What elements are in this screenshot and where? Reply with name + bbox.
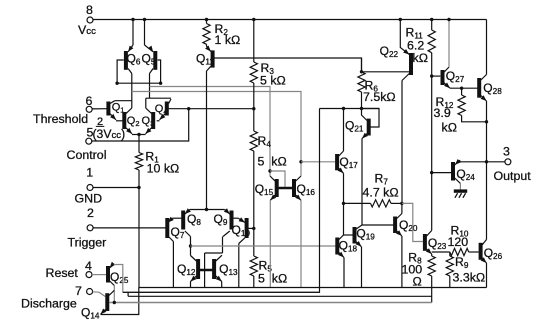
pin 7 Discharge [21, 284, 93, 311]
wire comp2 out to Q18 [191, 245, 336, 247]
svg-text:Q9: Q9 [214, 212, 228, 227]
pin 6 Threshold [33, 94, 93, 126]
wire Reset [92, 274, 106, 276]
pin 1 GND [75, 166, 103, 206]
svg-text:Q14: Q14 [81, 306, 100, 321]
svg-text:5: 5 [258, 272, 265, 286]
transistor Q11 [196, 44, 214, 71]
wire Trigger [93, 227, 165, 229]
svg-text:Q2: Q2 [127, 115, 140, 128]
transistor Q4 [155, 99, 171, 120]
svg-text:3.3kΩ: 3.3kΩ [453, 271, 486, 285]
svg-text:R9: R9 [455, 255, 469, 270]
node Vcc-R11 [430, 18, 433, 21]
svg-text:Output: Output [494, 169, 532, 183]
svg-text:R7: R7 [375, 172, 389, 187]
svg-text:Q6: Q6 [127, 52, 141, 67]
wire Q9 base [233, 218, 245, 222]
ground [454, 183, 467, 198]
svg-text:Q26: Q26 [484, 246, 503, 261]
resistor R1 [135, 135, 179, 288]
node divider 2/3Vcc [252, 107, 255, 110]
svg-text:kΩ: kΩ [272, 272, 287, 286]
wire Q28 collector Vcc [486, 20, 488, 75]
svg-text:kΩ: kΩ [271, 155, 286, 169]
wire ground rail [139, 287, 487, 289]
svg-text:8: 8 [86, 3, 93, 17]
wire R7-Q23 link [402, 203, 423, 241]
wire Q10 collector [238, 244, 240, 288]
svg-text:Q27: Q27 [446, 69, 465, 84]
node R7 tap [342, 202, 345, 205]
transistor Q6 [126, 20, 141, 74]
svg-text:Q19: Q19 [356, 227, 375, 242]
wire Q21 base loop [362, 109, 380, 128]
wire comparator out B [132, 92, 301, 177]
transistor Q20 [395, 214, 418, 237]
wire Q18 emitter [343, 258, 345, 288]
transistor Q22 [380, 20, 411, 81]
wire Q7em-Q8base [172, 217, 181, 219]
svg-text:6: 6 [86, 94, 93, 108]
node Q16 collector [299, 160, 302, 163]
wire Q3 emitter [139, 134, 146, 136]
node Q2Q3 emitters [137, 133, 140, 136]
wire Q11 collector [206, 71, 208, 210]
wire Q1em-Q2base [116, 120, 123, 122]
node Q27 collector Vcc [447, 18, 450, 21]
pin 8 Vcc [78, 3, 96, 37]
wire Q20 emitter [401, 236, 403, 288]
wire Q15 emitter [269, 200, 271, 287]
transistor Q25 [108, 262, 129, 286]
wire Q26 emitter [486, 263, 488, 288]
node output pin3 [485, 160, 488, 163]
node comparator2 out [189, 244, 192, 247]
svg-text:Q15: Q15 [255, 182, 274, 197]
svg-text:1: 1 [86, 166, 93, 180]
svg-text:Q13: Q13 [219, 262, 238, 277]
resistor R7 [344, 172, 402, 208]
svg-text:Reset: Reset [46, 266, 79, 280]
wire Q10 base [248, 227, 254, 229]
wire Q17 collector [343, 109, 345, 152]
resistor R9 [446, 252, 485, 288]
transistor Q10 [232, 217, 251, 243]
wire Q8-Q12 collectors [190, 237, 192, 256]
node Q5 base [159, 82, 162, 85]
wire Q12Q13 bases [198, 269, 214, 272]
wire Q1 collector [115, 100, 132, 102]
svg-text:Q24: Q24 [456, 167, 475, 182]
node divider 1/3Vcc [252, 227, 255, 230]
svg-text:120: 120 [448, 235, 469, 249]
node Vcc-Q22 [399, 18, 402, 21]
wire Q27em-Q28base [450, 87, 478, 89]
svg-text:Vcc: Vcc [78, 23, 96, 37]
wire Q25 emitter loop [114, 265, 123, 293]
pin 3 Output [494, 145, 532, 184]
wire discharge rail [109, 302, 432, 304]
wire output column [486, 101, 488, 240]
svg-text:Discharge: Discharge [21, 297, 77, 311]
transistor Q21 [345, 109, 369, 139]
transistor Q17 [337, 151, 358, 173]
wire Q7 collector [172, 242, 174, 288]
wire comparator out A [150, 87, 271, 177]
svg-text:Q8: Q8 [187, 212, 201, 227]
node Q4 base pin5 [187, 107, 190, 110]
svg-text:Q22: Q22 [380, 44, 399, 59]
svg-text:3: 3 [503, 145, 510, 159]
wire Q16 emitter [300, 200, 302, 287]
node Vcc-R2 [205, 18, 208, 21]
wire pin6-Q1 base [92, 108, 107, 110]
resistor R6 [358, 58, 396, 109]
node tail [205, 208, 208, 211]
node ff-Q17 [342, 107, 345, 110]
svg-text:2: 2 [87, 206, 94, 220]
transistor Q14 [81, 290, 114, 320]
transistor Q3 [142, 108, 155, 134]
svg-text:4: 4 [85, 259, 92, 273]
wire Q5-Q6 bases [117, 82, 161, 84]
wire Q11 base [215, 58, 362, 72]
node output R12 [485, 120, 488, 123]
svg-text:Q17: Q17 [339, 155, 358, 170]
wire Q4 base [169, 108, 254, 110]
wire Q19 emitter [361, 247, 363, 288]
resistor R11 [406, 20, 436, 66]
transistor Q9 [214, 208, 232, 236]
wire Q13 emitter [221, 282, 223, 288]
wire Q15 diode loop [270, 171, 285, 187]
node GND-R1 [137, 186, 140, 189]
wire pin5 [92, 109, 189, 141]
wire flipflop node [320, 108, 380, 110]
resistor R8 [402, 251, 436, 303]
transistor Q16 [294, 176, 315, 200]
pin 5 Control [67, 116, 126, 162]
svg-text:7.5kΩ: 7.5kΩ [363, 90, 396, 104]
svg-text:Q23: Q23 [428, 236, 447, 251]
node Q15 collector [268, 169, 271, 172]
node ff-R6 [360, 107, 363, 110]
svg-text:Q16: Q16 [297, 182, 316, 197]
wire Q17 emitter [343, 173, 345, 235]
wire Q8Q9 emitters [190, 209, 225, 211]
transistor Q27 [443, 67, 465, 88]
wire Q16col-Q17base [301, 161, 336, 163]
wire Q2 emitter [132, 134, 139, 136]
transistor Q23 [425, 231, 447, 255]
node discharge [113, 301, 116, 304]
transistor Q13 [214, 255, 238, 281]
resistor R10 [448, 224, 469, 256]
transistor Q8 [183, 208, 201, 236]
resistor R5 [250, 228, 287, 287]
svg-text:1 kΩ: 1 kΩ [215, 33, 241, 47]
transistor Q19 [355, 225, 376, 247]
node Vcc-Q6 [131, 18, 134, 21]
svg-text:kΩ: kΩ [413, 51, 428, 65]
transistor Q18 [337, 235, 357, 258]
wire Q3 collector [145, 98, 147, 108]
wire Q5 collector [149, 74, 151, 99]
transistor Q2 [124, 108, 139, 134]
transistor Q7 [167, 217, 185, 242]
svg-text:Q20: Q20 [399, 218, 418, 233]
wire Q22 base [362, 71, 410, 73]
node Vcc-Q5 [143, 18, 146, 21]
node Vcc-R3 [252, 18, 255, 21]
pin 4 Reset [46, 259, 93, 280]
wire Q27 collector [448, 19, 450, 67]
transistor Q12 [177, 256, 198, 282]
svg-text:kΩ: kΩ [442, 121, 457, 135]
wire R11-Q27-Q24-Q23 column [431, 53, 433, 231]
svg-text:3.9: 3.9 [434, 106, 451, 120]
svg-text:Q21: Q21 [345, 119, 364, 134]
transistor Q1 [108, 101, 124, 120]
node R12 top [460, 87, 463, 90]
pin 2 Trigger [68, 206, 107, 250]
resistor R12 [434, 88, 487, 134]
resistor R2 [203, 20, 240, 48]
wire Vcc rail [93, 19, 487, 21]
resistor R4 [250, 109, 287, 229]
svg-text:R4: R4 [258, 134, 272, 149]
svg-text:Q12: Q12 [177, 262, 196, 277]
wire Q24 base [432, 172, 451, 174]
wire Q18col-Q19base [344, 234, 353, 236]
wire R10 left [432, 251, 450, 253]
svg-text:Control: Control [67, 148, 107, 162]
wire reset line [123, 109, 320, 293]
wire Q12 emitter [190, 282, 192, 288]
node Q24 base [430, 171, 433, 174]
wire Q5 base loop [158, 60, 161, 83]
wire Q25 collector [113, 286, 115, 303]
transistor Q5 [142, 20, 156, 74]
wire Q6 base loop [117, 60, 124, 83]
svg-text:(3Vcc): (3Vcc) [93, 127, 126, 141]
node Q6 base [115, 82, 118, 85]
transistor Q26 [481, 240, 503, 264]
wire pin7-Q14 [93, 292, 106, 297]
wire GND [93, 187, 139, 189]
svg-text:5 kΩ: 5 kΩ [260, 74, 286, 88]
wire Q21 emitter [361, 139, 363, 226]
node Q22 base R6 [360, 70, 363, 73]
resistor R3 [250, 20, 286, 109]
wire Q15Q16 bases [277, 187, 294, 190]
wire rail B [128, 292, 432, 296]
wire Q24-pin3 [460, 160, 505, 162]
transistor Q28 [479, 75, 502, 102]
transistor Q24 [453, 159, 475, 183]
node Q27 base [430, 74, 433, 77]
svg-text:GND: GND [75, 192, 103, 206]
wire Q4em-Q3base [157, 120, 160, 122]
wire Q13 diode loop [205, 253, 223, 288]
wire Q19col-Q20base [362, 224, 393, 226]
wire Q27 base [432, 75, 441, 77]
wire reset rail [123, 291, 320, 293]
wire R10-Q26 base [469, 251, 479, 253]
svg-text:Q25: Q25 [110, 270, 129, 285]
svg-text:Trigger: Trigger [68, 236, 107, 250]
node Q20 collector [400, 202, 403, 205]
wire Q9-Q13 collectors [222, 237, 224, 254]
svg-text:5: 5 [258, 155, 265, 169]
wire Q6 collector [131, 74, 133, 109]
wire Q3Q4Q5 collectors [146, 97, 171, 99]
svg-text:Q28: Q28 [483, 81, 502, 96]
svg-text:Threshold: Threshold [33, 112, 88, 126]
wire Q20 collector [401, 203, 403, 213]
svg-text:Ω: Ω [413, 275, 422, 289]
svg-text:4.7 kΩ: 4.7 kΩ [363, 186, 399, 200]
wire Q14 emitter [101, 288, 139, 315]
wire Q22 collector [401, 81, 403, 204]
svg-text:10 kΩ: 10 kΩ [147, 162, 180, 176]
transistor Q15 [255, 176, 277, 200]
